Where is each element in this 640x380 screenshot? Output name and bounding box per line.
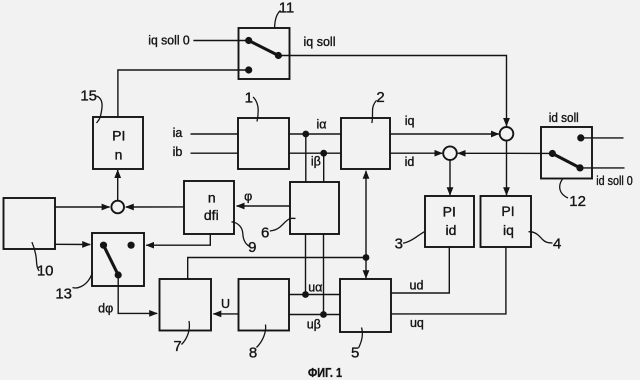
- svg-text:n: n: [115, 147, 123, 163]
- svg-text:iq soll 0: iq soll 0: [148, 34, 190, 48]
- wire summing junction S1 output up into block 15: [117, 170, 119, 201]
- wire i-alpha from block 1 to block 2: [289, 133, 341, 135]
- leader for label 6: [270, 218, 296, 231]
- wire uq from block 4 into block 5: [391, 247, 506, 314]
- leader for label 8: [257, 325, 266, 348]
- leader for label 5: [359, 328, 363, 349]
- wire u-beta from block 5 to block 8: [289, 314, 340, 316]
- svg-text:1: 1: [245, 89, 253, 106]
- switch 12 box: [541, 127, 592, 179]
- svg-text:7: 7: [173, 338, 181, 355]
- svg-text:n: n: [208, 189, 216, 205]
- wire u-alpha from block 5 to block 8: [289, 294, 340, 296]
- wire phi from block 6 into block 9: [237, 205, 290, 207]
- leader for label 2: [372, 100, 377, 123]
- node switch 11 right contact: [275, 52, 282, 59]
- svg-text:φ: φ: [244, 189, 252, 203]
- svg-text:PI: PI: [443, 204, 456, 220]
- wire dfi from block 9 into switch 13: [146, 234, 210, 245]
- wire n from block 9 into summing junction S1: [126, 206, 184, 208]
- wire ia input to block 1: [191, 133, 239, 135]
- svg-text:3: 3: [395, 235, 403, 252]
- svg-text:U: U: [221, 297, 230, 311]
- wire id soll source line right of switch 12: [581, 137, 624, 139]
- node phi distribution junction: [363, 254, 370, 261]
- summing junction S2 (id error): [443, 146, 457, 160]
- wire phi from block 7 top to distribution node: [188, 258, 366, 280]
- wire summing junction S3 output down into block 4: [506, 141, 508, 196]
- wire u-beta tap up into block 6: [323, 234, 325, 315]
- svg-text:ib: ib: [173, 145, 183, 159]
- wire u-alpha tap up into block 6: [305, 234, 307, 295]
- wire ud from block 3 into block 5: [391, 247, 449, 293]
- svg-text:11: 11: [279, 0, 295, 17]
- svg-text:uβ: uβ: [307, 317, 321, 331]
- svg-text:5: 5: [351, 345, 359, 362]
- leader for label 9: [232, 222, 250, 247]
- summing junction S3 (iq error): [500, 127, 514, 141]
- svg-text:dfi: dfi: [204, 207, 219, 223]
- wire id soll 0 source line right of switch 12: [580, 167, 625, 169]
- wire iq from block 2 into summing junction S3: [390, 133, 499, 135]
- svg-text:id: id: [405, 155, 415, 169]
- wire i-alpha tap down into block 6: [305, 134, 307, 182]
- wire block 15 output up to switch 11 lower contact: [118, 70, 249, 117]
- block 5 box: [340, 279, 391, 332]
- svg-text:2: 2: [376, 89, 384, 106]
- wire block 10 output into switch 13: [55, 243, 90, 245]
- node u-beta junction: [320, 311, 327, 318]
- svg-text:id soll 0: id soll 0: [596, 174, 633, 188]
- switch 12 blade: [552, 154, 580, 168]
- switch 13 box: [92, 233, 144, 286]
- wire id from block 2 into summing junction S2: [390, 152, 442, 154]
- wire block 10 output into summing junction S1: [55, 206, 110, 208]
- wire iq soll from switch 11 down into summing junction S3: [278, 56, 506, 127]
- node switch 12 lower-right contact: [576, 164, 583, 171]
- block 9 n dfi box: [184, 181, 234, 234]
- node switch 13 upper-left contact: [100, 242, 107, 249]
- svg-text:4: 4: [553, 235, 561, 252]
- block 8 box: [239, 279, 290, 331]
- leader for label 13: [73, 273, 93, 288]
- switch 11 blade: [249, 41, 279, 56]
- svg-text:uα: uα: [308, 280, 322, 294]
- wire id soll feedback from switch 12 into summing junction S2: [458, 152, 553, 154]
- block 10 box: [4, 198, 56, 249]
- wire phi down into block 5: [365, 258, 367, 279]
- switch 11 box: [239, 28, 290, 79]
- block 6 box: [290, 182, 339, 234]
- svg-text:8: 8: [249, 345, 257, 362]
- wire iq soll 0 input to switch 11: [193, 40, 248, 42]
- node switch 12 left contact: [549, 150, 556, 157]
- leader for label 12: [560, 179, 568, 198]
- switch 13 blade: [104, 245, 119, 275]
- svg-text:ia: ia: [173, 126, 183, 140]
- block 4 PI iq box: [481, 196, 532, 247]
- node i-alpha junction: [302, 131, 309, 138]
- leader for label 7: [182, 321, 190, 345]
- node i-beta junction: [320, 150, 327, 157]
- node switch 11 lower-left contact: [245, 66, 252, 73]
- svg-text:iq soll: iq soll: [304, 35, 336, 49]
- node switch 13 upper-right contact: [128, 242, 135, 249]
- leader for label 3: [403, 231, 425, 243]
- leader for label 4: [529, 232, 553, 243]
- svg-text:dφ: dφ: [98, 301, 113, 315]
- summing junction S1 (speed error): [111, 201, 124, 214]
- svg-text:id: id: [446, 222, 457, 238]
- wire ib input to block 1: [191, 152, 239, 154]
- svg-text:ФИГ. 1: ФИГ. 1: [308, 365, 342, 380]
- svg-text:10: 10: [37, 263, 54, 280]
- node switch 12 upper-right contact: [577, 134, 584, 141]
- svg-text:6: 6: [261, 224, 269, 241]
- leader for label 11: [275, 11, 281, 28]
- block 2 box: [341, 118, 390, 169]
- svg-text:PI: PI: [112, 128, 125, 144]
- block 1 box: [238, 118, 289, 169]
- svg-text:iα: iα: [316, 118, 326, 132]
- svg-text:13: 13: [55, 286, 72, 303]
- wire summing junction S2 output down into block 3: [449, 160, 451, 195]
- leader for label 10: [32, 242, 39, 271]
- svg-text:12: 12: [569, 193, 586, 210]
- node switch 11 upper-left contact: [245, 37, 252, 44]
- svg-text:15: 15: [80, 88, 97, 105]
- leader for label 15: [97, 96, 103, 123]
- svg-text:uq: uq: [410, 316, 424, 330]
- svg-text:PI: PI: [501, 203, 514, 219]
- node u-alpha junction: [302, 291, 309, 298]
- svg-text:id soll: id soll: [549, 111, 579, 125]
- node switch 13 lower contact: [115, 271, 122, 278]
- svg-text:iq: iq: [405, 114, 415, 128]
- svg-text:9: 9: [248, 239, 256, 256]
- wire i-beta tap down into block 6: [323, 153, 325, 182]
- svg-text:iq: iq: [503, 222, 514, 238]
- block 3 PI id box: [425, 196, 474, 247]
- wire i-beta from block 1 to block 2: [289, 152, 341, 154]
- svg-text:iβ: iβ: [311, 155, 321, 169]
- block 7 box: [160, 279, 212, 331]
- wire d-phi from switch 13 into block 7: [118, 275, 157, 313]
- block 15 PI n box: [93, 117, 143, 169]
- leader for label 1: [253, 97, 258, 122]
- wire U from block 8 into block 7: [213, 313, 238, 315]
- wire phi up into block 2: [365, 171, 367, 258]
- svg-text:ud: ud: [410, 279, 424, 293]
